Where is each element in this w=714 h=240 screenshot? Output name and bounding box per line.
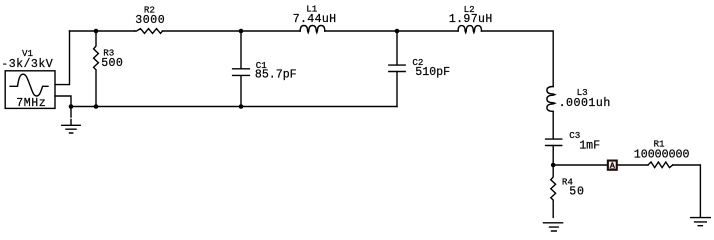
svg-text:1mF: 1mF: [579, 139, 600, 152]
svg-text:7MHz: 7MHz: [16, 97, 46, 110]
voltage source V1: [5, 71, 55, 109]
wire top rail right segment to corner: [481, 31, 553, 87]
wire top rail between R2 and L1: [163, 30, 301, 32]
wire C3 to node A junction: [552, 146, 554, 166]
svg-text:7.44uH: 7.44uH: [293, 13, 337, 26]
wire R1 to ground corner: [673, 165, 701, 217]
svg-text:-3k/3kV: -3k/3kV: [1, 58, 53, 71]
inductor L2: [458, 26, 481, 33]
capacitor C2: [389, 31, 405, 107]
ground at V1: [62, 107, 80, 134]
probe marker A: [607, 160, 618, 171]
wire V1 plus lead: [55, 31, 70, 85]
resistor R2: [135, 29, 163, 34]
wire V1 minus lead: [55, 96, 71, 107]
resistor R3: [94, 31, 99, 107]
node dot C1 top: [239, 29, 244, 34]
node dot R3 bottom: [94, 104, 99, 109]
svg-text:50: 50: [569, 186, 585, 199]
svg-text:500: 500: [101, 57, 123, 70]
resistor R1: [648, 162, 673, 168]
node A junction dot: [551, 163, 556, 168]
node dot R3 top: [94, 29, 99, 34]
node dot C2 top: [395, 29, 400, 34]
node dot bottom-left junction: [69, 104, 74, 109]
svg-text:1.97uH: 1.97uH: [449, 13, 493, 26]
svg-text:510pF: 510pF: [415, 66, 450, 79]
wire junction to probe A: [553, 164, 607, 166]
inductor L3: [547, 87, 555, 112]
capacitor C3: [546, 139, 562, 145]
wire top rail left segment: [70, 30, 135, 32]
wire top rail between L1 and L2: [325, 30, 458, 32]
inductor L1: [300, 25, 325, 32]
svg-text:3000: 3000: [135, 14, 165, 27]
wire L3 to C3: [552, 111, 554, 138]
node dot C1 bottom: [239, 104, 244, 109]
svg-text:10000000: 10000000: [634, 149, 690, 162]
wire bottom rail: [71, 106, 397, 108]
svg-text:.0001uh: .0001uh: [559, 97, 611, 110]
ground right (R1): [691, 218, 711, 226]
ground below R4: [544, 223, 563, 231]
capacitor C1: [233, 31, 250, 107]
resistor R4: [551, 165, 556, 217]
svg-text:85.7pF: 85.7pF: [255, 68, 297, 81]
wire probe A to R1: [618, 164, 648, 166]
